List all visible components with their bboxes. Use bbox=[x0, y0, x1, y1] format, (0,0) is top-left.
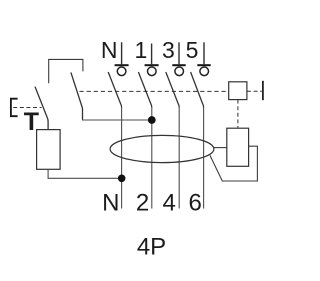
mechanical linkage (dashed) to trip mechanism bbox=[80, 90, 229, 92]
manual operator bar bbox=[262, 81, 264, 100]
dashed link: mechanism to manual lever bbox=[247, 90, 262, 92]
test push-button symbol bbox=[11, 99, 18, 117]
wire pole 5 vertical bbox=[203, 107, 205, 209]
wire pole 1 vertical bbox=[151, 107, 153, 209]
terminal 5 top: circle bbox=[200, 67, 209, 76]
test switch blade (T contact) bbox=[35, 87, 48, 130]
terminal 3 top: lead wire bbox=[178, 42, 180, 64]
terminal N top: crossbar bbox=[115, 64, 129, 66]
wire: resistor to neutral bbox=[48, 169, 122, 178]
terminal 3 top: crossbar bbox=[172, 64, 185, 66]
current transformer toroid bbox=[110, 135, 214, 162]
terminal 5 top: crossbar bbox=[197, 64, 210, 66]
terminal 1 top: lead wire bbox=[151, 44, 153, 65]
terminal N top: circle bbox=[117, 67, 126, 76]
wire: ganged contact to pole 1 bbox=[82, 119, 152, 121]
svg-text:5: 5 bbox=[186, 37, 199, 63]
switch blade pole 3 bbox=[166, 72, 179, 108]
push-button actuating link (dashed) bbox=[13, 107, 41, 109]
switch blade pole 5 bbox=[191, 72, 204, 108]
terminal N top: lead wire bbox=[121, 42, 123, 64]
wire pole N vertical bbox=[121, 107, 123, 209]
wire: test switch fixed contact riser and bridge bbox=[49, 59, 83, 83]
switch blade pole 1 bbox=[138, 72, 151, 108]
junction dot on pole N bbox=[118, 175, 126, 183]
trip mechanism box bbox=[229, 82, 247, 100]
dashed link: mechanism to trip relay bbox=[237, 100, 239, 129]
wire: toroid secondary to trip relay (upper) bbox=[214, 147, 227, 149]
svg-text:2: 2 bbox=[136, 190, 149, 217]
svg-text:3: 3 bbox=[162, 37, 175, 63]
svg-text:1: 1 bbox=[135, 37, 148, 63]
terminal 1 top: circle bbox=[148, 67, 157, 76]
switch blade pole N bbox=[108, 72, 121, 108]
terminal 1 top: crossbar bbox=[145, 64, 159, 66]
trip relay coil bbox=[227, 128, 249, 166]
svg-text:4P: 4P bbox=[137, 234, 166, 261]
junction dot on pole 1 bbox=[148, 116, 156, 124]
test resistor R bbox=[37, 130, 61, 170]
svg-text:N: N bbox=[102, 190, 119, 217]
svg-text:4: 4 bbox=[163, 190, 176, 217]
terminal 3 top: circle bbox=[175, 67, 184, 76]
svg-text:6: 6 bbox=[189, 190, 202, 217]
wire: toroid secondary to trip relay (lower loop) bbox=[210, 146, 258, 181]
ganged test contact blade bbox=[71, 72, 83, 119]
terminal 5 top: lead wire bbox=[203, 42, 205, 64]
svg-text:N: N bbox=[101, 37, 118, 63]
wire pole 3 vertical bbox=[178, 107, 180, 209]
